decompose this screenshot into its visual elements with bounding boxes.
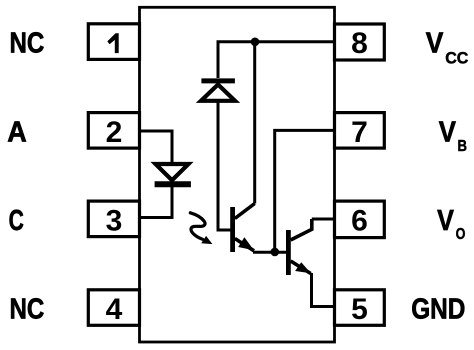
svg-text:V: V <box>426 28 444 60</box>
svg-text:NC: NC <box>10 28 45 60</box>
node A junction dot <box>251 38 260 47</box>
pin 5 box <box>335 290 385 326</box>
label VCC pin8 <box>426 28 469 68</box>
svg-text:2: 2 <box>106 116 123 149</box>
wire Q2 collector to pin6 <box>312 218 335 221</box>
label VB pin7 <box>439 116 467 154</box>
diode D2 <box>201 81 235 101</box>
transistor Q1 <box>233 204 255 253</box>
svg-text:7: 7 <box>351 116 368 149</box>
svg-text:NC: NC <box>10 294 45 326</box>
pin 7 box <box>335 113 385 149</box>
svg-text:4: 4 <box>106 293 123 326</box>
svg-text:C: C <box>9 205 24 237</box>
wire node A to Q1 collector <box>253 42 256 204</box>
svg-text:GND: GND <box>411 294 465 326</box>
pin 8 box <box>335 24 385 60</box>
svg-text:6: 6 <box>351 204 368 237</box>
svg-text:V: V <box>437 205 454 237</box>
pin 4 box <box>88 290 139 326</box>
svg-text:B: B <box>458 138 468 155</box>
svg-text:CC: CC <box>445 49 468 68</box>
wire D2 anode to Q1 base <box>218 101 231 230</box>
wire Q2 emitter to pin5 <box>312 273 335 307</box>
wire pin7 to node B <box>275 130 335 251</box>
svg-text:3: 3 <box>106 204 123 237</box>
LED D1 <box>155 164 191 184</box>
pin 1 box <box>88 24 139 60</box>
transistor Q2 <box>288 219 311 275</box>
wire Q1 emitter to Q2 base <box>253 251 286 254</box>
svg-text:8: 8 <box>351 27 368 60</box>
wire pin2 to LED anode <box>140 131 172 162</box>
svg-text:5: 5 <box>351 293 368 326</box>
pin 2 box <box>88 113 139 149</box>
pin 3 box <box>88 201 139 237</box>
svg-text:O: O <box>456 226 466 243</box>
pin 6 box <box>335 201 385 238</box>
svg-text:V: V <box>439 116 457 148</box>
light arrow from D1 to Q1 <box>190 213 212 244</box>
wire pin8 to node A <box>218 42 335 78</box>
wire LED cathode to pin3 <box>140 185 172 218</box>
IC body U1 <box>140 7 335 342</box>
node B junction dot <box>271 248 280 257</box>
label VO pin6 <box>437 205 465 243</box>
pin 1 number <box>107 33 118 53</box>
svg-text:A: A <box>7 116 27 148</box>
